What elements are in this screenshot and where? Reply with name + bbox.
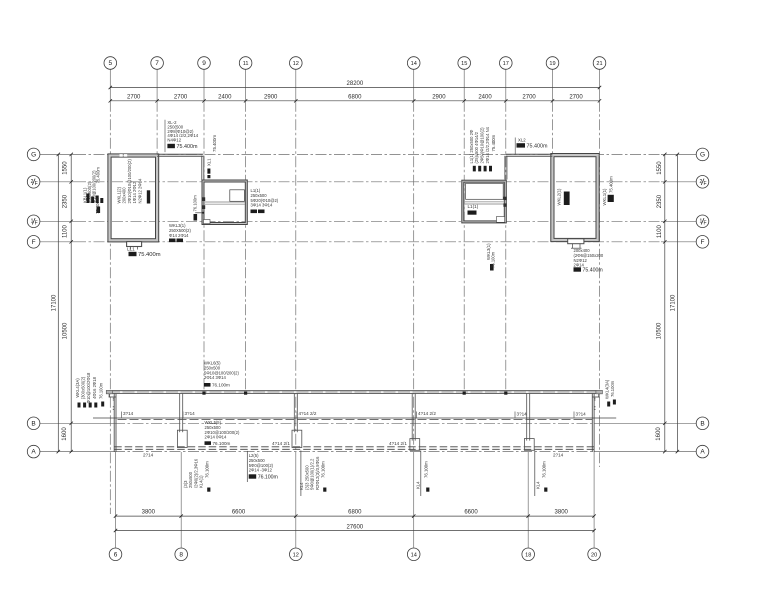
grid line 17 (vertical axis) [505, 101, 507, 393]
svg-text:2400: 2400 [218, 95, 232, 101]
grid bubble 14 bottom [407, 548, 420, 561]
grid line 14 (vertical axis) [413, 101, 415, 452]
beam band across stair room right [464, 201, 504, 203]
grid bubble B left [27, 417, 40, 430]
wall notch left stair room [204, 220, 211, 224]
svg-text:76.100m: 76.100m [491, 251, 496, 268]
svg-text:2Φ14 3Φ14: 2Φ14 3Φ14 [204, 375, 226, 380]
svg-text:75.400m: 75.400m [527, 144, 548, 150]
svg-text:11: 11 [243, 61, 249, 67]
elevation label left wall [97, 207, 101, 214]
svg-text:12: 12 [293, 552, 299, 558]
svg-text:L1(1): L1(1) [468, 204, 479, 209]
beam XL-2 top right (wall pair) [506, 153, 553, 155]
beam label WKL5 inside corridor [205, 420, 240, 440]
room wall right classroom [552, 155, 597, 240]
grid bubble A right [696, 445, 709, 458]
right inner dimension line [664, 154, 666, 451]
svg-text:19: 19 [549, 61, 555, 67]
room wall right stair room [463, 181, 506, 222]
grid bubble 14 top [407, 57, 420, 70]
svg-text:17100: 17100 [671, 294, 677, 311]
grid line 12b bottom leader [295, 452, 297, 548]
grid bubble 12 top [290, 57, 303, 70]
svg-text:1600: 1600 [62, 427, 68, 441]
grid line 8 bottom leader [180, 452, 182, 548]
beam dense label inside classroom [147, 190, 150, 203]
left inner dimension line [70, 154, 72, 451]
grid line 1/F (horizontal axis) [75, 220, 661, 222]
grid bubble A left [27, 445, 40, 458]
door jamb column left stair room [202, 197, 205, 201]
XL2 leader line right [514, 138, 516, 155]
svg-text:75.400m: 75.400m [609, 176, 614, 193]
svg-text:F: F [35, 181, 38, 187]
corridor column at grid 18 [526, 394, 528, 441]
svg-text:6800: 6800 [348, 510, 362, 516]
svg-text:9: 9 [202, 60, 206, 67]
corridor right end tip [598, 391, 600, 398]
grid line 2/F right leader [661, 181, 696, 183]
beam label L1 block above stair room right [469, 126, 490, 163]
grid line 1/F left leader [40, 220, 75, 222]
svg-text:1600: 1600 [656, 427, 662, 441]
svg-text:75.400m: 75.400m [491, 134, 496, 151]
svg-text:F: F [32, 239, 36, 246]
grid bubble leader 15 [463, 69, 465, 100]
beam label WKL3 below stair room [169, 223, 191, 238]
svg-text:3800: 3800 [142, 510, 156, 516]
svg-text:1100: 1100 [657, 224, 663, 238]
svg-text:76.100m: 76.100m [424, 461, 429, 478]
svg-text:2Φ14 -3Φ12: 2Φ14 -3Φ12 [249, 468, 273, 473]
svg-text:KL4: KL4 [416, 481, 421, 489]
svg-text:8: 8 [179, 551, 183, 558]
svg-text:6600: 6600 [232, 510, 246, 516]
elevation 76.100 vertical left group [194, 214, 198, 221]
grid bubble B right [696, 417, 709, 430]
svg-text:2400: 2400 [478, 95, 492, 101]
grid bubble 8 bottom [175, 548, 188, 561]
svg-text:1550: 1550 [657, 161, 663, 175]
grid line 15 (vertical axis) [463, 101, 465, 393]
svg-text:18: 18 [525, 552, 531, 558]
svg-text:3800: 3800 [555, 510, 569, 516]
svg-text:76.100m: 76.100m [321, 461, 326, 478]
svg-text:KL4: KL4 [536, 481, 541, 489]
grid bubble leader 12 [295, 69, 297, 100]
grid line 14b bottom leader [413, 452, 415, 548]
grid bubble leader 9 [203, 69, 205, 100]
grid line 7 (vertical axis) [156, 101, 158, 154]
grid line B left leader [40, 422, 114, 424]
grid bubble leader 19 [552, 69, 554, 100]
beam detail block below right classroom [574, 248, 604, 268]
svg-text:2700: 2700 [127, 95, 141, 101]
grid line G (horizontal axis) [75, 153, 661, 155]
svg-text:2Φ14 0Φ14: 2Φ14 0Φ14 [205, 435, 227, 440]
beam joint dot at grid 9 [202, 392, 205, 395]
corridor column at grid 8 [179, 394, 181, 433]
svg-text:F: F [703, 181, 706, 187]
beam joint dot at grid 17 [504, 392, 507, 395]
svg-text:7: 7 [155, 60, 159, 67]
grid bubble 20 bottom [588, 548, 601, 561]
svg-text:76.100m: 76.100m [258, 475, 278, 481]
svg-text:2350: 2350 [657, 194, 663, 208]
beam label block below corridor 1 [183, 458, 204, 488]
right outer dimension line 17100 [676, 154, 678, 451]
svg-text:XL1: XL1 [207, 158, 212, 166]
column jog line below corridor at 18 [534, 451, 536, 497]
beam XL-2 top left (wall pair) [157, 153, 203, 155]
svg-text:14: 14 [411, 61, 417, 67]
svg-text:10500: 10500 [63, 322, 69, 339]
svg-text:4?14 2/2: 4?14 2/2 [418, 411, 436, 416]
grid bubble F left [27, 236, 40, 249]
stair room inner rect left [230, 190, 245, 202]
svg-text:LL1: LL1 [127, 247, 135, 252]
bottom segment dimension line [116, 515, 595, 517]
svg-text:2700: 2700 [174, 95, 188, 101]
svg-text:76.100m: 76.100m [212, 383, 230, 388]
elevation label below classroom [129, 252, 137, 256]
LL1 tick marks [130, 247, 132, 250]
grid line F left leader [40, 241, 75, 243]
grid bubble 5 top [104, 57, 117, 70]
column jog line below corridor at 14 [420, 451, 422, 497]
svg-text:76.100m: 76.100m [542, 461, 547, 478]
svg-text:Φ10@100/2Φ18: Φ10@100/2Φ18 [86, 372, 91, 403]
beam label L1 right of stair room [251, 188, 279, 208]
corridor column at grid 12 [293, 394, 295, 433]
grid line F (horizontal axis) [75, 241, 661, 243]
svg-text:2: 2 [700, 179, 703, 185]
grid bubble G right [696, 148, 709, 161]
wall pair right of stair room [504, 156, 506, 180]
svg-text:75.400m: 75.400m [177, 144, 198, 150]
svg-text:5Φ0@100(1)/2,2: 5Φ0@100(1)/2,2 [310, 458, 315, 490]
grid bubble F right [696, 236, 709, 249]
overall dimension line 27600 [116, 530, 595, 532]
grid bubble 11 top [239, 57, 252, 70]
svg-text:75.400m: 75.400m [96, 167, 101, 184]
grid bubble 9 top [198, 57, 211, 70]
svg-text:(300x500(2): (300x500(2) [81, 376, 86, 399]
grid line 5 (vertical axis) [109, 101, 111, 514]
svg-text:1: 1 [31, 219, 34, 225]
beam label block below corridor 3 [416, 481, 421, 489]
stair room inner rect right [466, 183, 504, 199]
grid bubble 19 top [546, 57, 559, 70]
left outer dimension line 17100 [57, 154, 59, 451]
grid bubble leader 5 [109, 69, 111, 100]
svg-text:75.400m: 75.400m [212, 135, 217, 152]
svg-text:2: 2 [31, 179, 34, 185]
svg-text:WKL2(1): WKL2(1) [557, 188, 562, 206]
svg-text:76.100m: 76.100m [610, 380, 615, 397]
wall notch right stair room [497, 217, 505, 223]
grid bubble G left [27, 148, 40, 161]
beam label WKL6 above corridor [204, 361, 239, 381]
svg-text:4?14 2/2: 4?14 2/2 [299, 411, 317, 416]
svg-text:3?14: 3?14 [123, 411, 134, 416]
grid line 6 bottom leader [115, 452, 117, 548]
beam LL1 protrusion [127, 242, 142, 247]
svg-text:76.100m: 76.100m [205, 461, 210, 478]
grid line 20 bottom leader [593, 452, 595, 548]
beam label WKL2 inside classroom [117, 159, 143, 204]
svg-text:2700: 2700 [522, 95, 536, 101]
WKL4 blob row [78, 403, 81, 408]
svg-text:G: G [700, 152, 705, 159]
svg-text:3?14: 3?14 [185, 411, 196, 416]
corridor left end wall [113, 394, 115, 453]
svg-text:L1(1) 250x500 2Φ: L1(1) 250x500 2Φ [469, 129, 474, 163]
grid line 2/F left leader [40, 181, 75, 183]
svg-text:10500: 10500 [657, 322, 663, 339]
svg-text:2900: 2900 [264, 95, 278, 101]
grid bubble 12 bottom [290, 548, 303, 561]
grid line A left leader [40, 451, 114, 453]
beam band across stair room left [205, 201, 245, 203]
beam joint dot at grid 11 [244, 392, 247, 395]
svg-text:27600: 27600 [346, 524, 363, 530]
svg-text:KL4(1): KL4(1) [199, 475, 204, 488]
corridor second beam line [93, 417, 616, 419]
grid bubble 21 top [593, 57, 606, 70]
svg-text:14: 14 [411, 552, 417, 558]
grid bubble leader 11 [245, 69, 247, 100]
svg-text:R2Φ12(3)/3,5Φ16: R2Φ12(3)/3,5Φ16 [315, 456, 320, 490]
svg-text:G: G [31, 152, 36, 159]
svg-text:WKL1(1): WKL1(1) [602, 188, 607, 206]
grid bubble leader 21 [599, 69, 601, 100]
top dimension ticks [109, 99, 602, 102]
grid line 18 bottom leader [527, 452, 529, 548]
rebar leader ticks [121, 412, 123, 418]
grid bubble leader 7 [156, 69, 158, 100]
svg-text:4Φ16 2Φ18: 4Φ16 2Φ18 [92, 376, 97, 398]
protrusion tick marks right [572, 244, 574, 249]
grid line 2/F (horizontal axis) [75, 181, 661, 183]
svg-text:B: B [31, 420, 35, 427]
grid line 19 (vertical axis) [552, 101, 554, 155]
grid bubble 6 bottom [109, 548, 122, 561]
svg-text:4?14 2/1: 4?14 2/1 [272, 441, 290, 446]
beam label block below corridor 2 [299, 456, 320, 490]
corridor right wall ticks [594, 397, 595, 399]
grid line B right leader [594, 422, 696, 424]
svg-text:6800: 6800 [348, 95, 362, 101]
grid bubble 1/F left [27, 215, 40, 228]
svg-text:76.100m: 76.100m [213, 441, 231, 446]
svg-text:3Φ14 3Φ14: 3Φ14 3Φ14 [251, 203, 273, 208]
grid line 12 (vertical axis) [295, 101, 297, 452]
grid bubble 17 top [500, 57, 513, 70]
room wall left classroom [110, 156, 158, 241]
column jog line below corridor at 12 [300, 451, 302, 497]
window gap marks on top wall [120, 154, 123, 157]
svg-text:75.400m: 75.400m [138, 252, 161, 258]
svg-text:F: F [35, 221, 38, 227]
beam label WKL3 below stair room right [490, 264, 494, 271]
beam label WKL4 left of corridor [75, 372, 97, 403]
beam label L2 block below corridor [249, 453, 274, 473]
grid bubble 18 bottom [522, 548, 535, 561]
svg-text:3?14: 3?14 [517, 412, 528, 417]
grid bubble 2/F right [696, 176, 709, 189]
grid line 11 (vertical axis) [245, 101, 247, 393]
L2 block leader line [246, 451, 248, 482]
svg-text:A: A [700, 449, 705, 456]
svg-text:2?14: 2?14 [553, 453, 564, 458]
svg-text:1550: 1550 [63, 161, 69, 175]
corridor right end wall [591, 394, 593, 453]
door jamb column right stair room [503, 197, 506, 200]
svg-text:76.100m: 76.100m [193, 195, 198, 212]
grid line 21 (vertical axis) [599, 101, 601, 467]
corridor left end tip [108, 391, 110, 398]
svg-text:6: 6 [114, 551, 118, 558]
svg-text:N2Φ12 2Φ14: N2Φ12 2Φ14 [137, 178, 142, 204]
grid line G left leader [40, 153, 75, 155]
grid line F right leader [661, 241, 696, 243]
room wall left stair room [203, 181, 246, 224]
svg-text:2Φ14 /2/2,2Φ14 N4: 2Φ14 /2/2,2Φ14 N4 [485, 126, 490, 163]
svg-text:A: A [31, 449, 36, 456]
grid line 1/F right leader [661, 220, 696, 222]
beam label XL-2 block left [167, 120, 198, 150]
svg-text:1: 1 [700, 219, 703, 225]
svg-text:F: F [703, 221, 706, 227]
svg-text:WKL4(3A): WKL4(3A) [605, 379, 610, 399]
grid line B (horizontal axis) [114, 422, 594, 424]
svg-text:12: 12 [293, 61, 299, 67]
corridor left wall ticks [113, 397, 114, 399]
grid bubble 1/F right [696, 215, 709, 228]
grid line A (horizontal axis) [114, 451, 594, 453]
svg-text:WKL4(3A): WKL4(3A) [75, 378, 80, 398]
grid bubble 15 top [458, 57, 471, 70]
wall pair left of stair room [201, 156, 203, 181]
beam label block below corridor 4 [536, 481, 541, 489]
beam label XL2 block right [517, 137, 548, 149]
svg-text:N4Φ12: N4Φ12 [167, 138, 181, 143]
svg-text:17: 17 [503, 61, 509, 67]
svg-text:75.400m: 75.400m [583, 268, 603, 274]
svg-text:2350: 2350 [63, 194, 69, 208]
corridor column at grid 14 [411, 394, 413, 441]
svg-text:F: F [701, 239, 705, 246]
svg-text:5: 5 [108, 60, 112, 67]
grid line 9 (vertical axis) [203, 101, 205, 393]
bottom dimension ticks [114, 514, 596, 517]
svg-text:6600: 6600 [464, 510, 478, 516]
svg-text:75.400m: 75.400m [95, 197, 100, 214]
svg-text:17100: 17100 [52, 294, 58, 311]
grid bubble leader 17 [505, 69, 507, 100]
svg-text:KL4: KL4 [299, 482, 304, 490]
grid bubble leader 14 [413, 69, 415, 100]
grid bubble 7 top [151, 57, 164, 70]
svg-text:2900: 2900 [432, 95, 446, 101]
overall dimension line 28200 [110, 87, 599, 89]
svg-text:XL2: XL2 [518, 137, 526, 142]
svg-text:3?14: 3?14 [576, 412, 587, 417]
svg-text:4?14 2/1: 4?14 2/1 [389, 441, 407, 446]
svg-text:Φ14 2Φ14: Φ14 2Φ14 [169, 233, 189, 238]
corridor top chord beam WKL [109, 391, 598, 394]
svg-text:2Φ50(Φ10@100(2): 2Φ50(Φ10@100(2) [480, 127, 485, 164]
door jamb column 2 left stair room [202, 205, 205, 209]
XL-2 leader line left [164, 120, 166, 152]
WKL3 leader with dot [195, 212, 203, 214]
svg-text:20: 20 [591, 552, 597, 558]
beam protrusion right classroom [568, 239, 584, 244]
beam joint dot at grid 15 [463, 392, 466, 395]
grid line A right leader [594, 451, 696, 453]
svg-text:1100: 1100 [63, 224, 69, 238]
svg-text:76.100m: 76.100m [99, 382, 104, 399]
svg-text:21: 21 [596, 61, 602, 67]
svg-text:2?14: 2?14 [143, 453, 154, 458]
grid bubble 2/F left [27, 176, 40, 189]
corridor bottom chord dashed [114, 446, 594, 448]
top segment dimension line [110, 100, 599, 102]
svg-text:(25)x500 4Φ14/2: (25)x500 4Φ14/2 [474, 131, 479, 163]
svg-text:15: 15 [461, 61, 467, 67]
svg-text:28200: 28200 [347, 81, 364, 87]
svg-text:2700: 2700 [569, 95, 583, 101]
grid line G right leader [661, 153, 696, 155]
beam label KBL1 left of classroom [83, 170, 97, 203]
svg-text:(3(3 250x500: (3(3 250x500 [304, 465, 309, 490]
svg-text:B: B [700, 420, 704, 427]
door jamb column 2 right stair room [503, 203, 506, 206]
